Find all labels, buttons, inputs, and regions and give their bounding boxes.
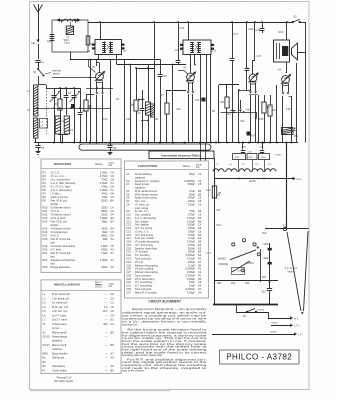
svg-text:27kΩ: 27kΩ bbox=[101, 185, 107, 189]
svg-text:V4: V4 bbox=[278, 68, 282, 72]
label S8 bbox=[218, 259, 227, 261]
svg-text:Mains aerial*: Mains aerial* bbox=[52, 330, 67, 334]
svg-text:R1: R1 bbox=[43, 171, 47, 175]
wire c30 stub bbox=[237, 304, 271, 312]
svg-text:PHILCO - A3782: PHILCO - A3782 bbox=[226, 353, 292, 362]
wire s6 line bbox=[236, 309, 268, 318]
svg-text:R25: R25 bbox=[245, 282, 250, 285]
svg-text:A1: A1 bbox=[111, 251, 115, 255]
svg-text:R23: R23 bbox=[217, 282, 222, 285]
coil L3 bbox=[62, 19, 78, 44]
svg-text:1MΩ: 1MΩ bbox=[246, 110, 251, 112]
svg-text:C34a: C34a bbox=[241, 147, 247, 149]
valve V2 bbox=[183, 66, 196, 84]
svg-text:D4: D4 bbox=[111, 213, 115, 217]
wire HT down bbox=[284, 100, 286, 125]
wire if coupling a bbox=[110, 59, 112, 143]
resistor R13 bbox=[268, 95, 276, 143]
resistor R12 bbox=[262, 95, 271, 143]
svg-text:C4: C4 bbox=[111, 206, 115, 210]
smoothing cap C31b bbox=[268, 262, 272, 265]
svg-text:10MΩ: 10MΩ bbox=[101, 209, 108, 213]
svg-text:R12: R12 bbox=[266, 106, 271, 109]
svg-text:Part V2 fil. pot.: Part V2 fil. pot. bbox=[51, 220, 68, 224]
mains lead bbox=[287, 231, 308, 315]
svg-text:CAPACITORS: CAPACITORS bbox=[138, 164, 158, 168]
rail dots bbox=[53, 141, 293, 143]
svg-text:—: — bbox=[105, 314, 108, 317]
svg-text:175pF: 175pF bbox=[188, 202, 196, 206]
svg-text:—: — bbox=[105, 331, 108, 334]
variable capacitor VC2 bbox=[70, 88, 81, 143]
label C12 bbox=[126, 118, 131, 121]
svg-text:Osc. anode feed: Osc. anode feed bbox=[51, 178, 71, 182]
svg-text:R6: R6 bbox=[43, 188, 47, 192]
wire IFT1 legs bbox=[99, 55, 117, 65]
capacitor C24 bbox=[226, 85, 235, 143]
svg-text:C40M: C40M bbox=[275, 155, 281, 157]
svg-text:Mains on/off: Mains on/off bbox=[52, 343, 66, 347]
svg-text:D6: D6 bbox=[111, 192, 115, 196]
volume control R11 bbox=[282, 128, 300, 139]
label C10 bbox=[103, 118, 108, 121]
misc footnote bbox=[54, 377, 74, 384]
svg-text:A9: A9 bbox=[111, 356, 115, 360]
wire below V1 bbox=[86, 87, 113, 89]
wire grid line bbox=[52, 60, 96, 79]
svg-text:150Ω: 150Ω bbox=[101, 206, 107, 210]
svg-text:A7: A7 bbox=[111, 351, 115, 355]
valve V1 bbox=[92, 65, 105, 83]
svg-text:R5: R5 bbox=[43, 185, 47, 189]
antenna AE bbox=[31, 4, 43, 45]
svg-text:B1,: B1, bbox=[43, 356, 47, 360]
svg-text:L.T.+: L.T.+ bbox=[294, 325, 300, 328]
svg-text:R4: R4 bbox=[43, 181, 47, 185]
svg-text:C17: C17 bbox=[234, 33, 239, 36]
coil L8 bbox=[224, 169, 237, 172]
svg-text:R7: R7 bbox=[43, 192, 47, 196]
tuning pointer arrow bbox=[230, 247, 259, 272]
svg-text:820Ω: 820Ω bbox=[101, 199, 107, 203]
svg-text:MISCELLANEOUS: MISCELLANEOUS bbox=[54, 283, 80, 287]
valve V3 bbox=[246, 67, 259, 85]
svg-text:C3: C3 bbox=[198, 172, 202, 176]
wire gang top bbox=[58, 87, 80, 89]
wire frame box stub bbox=[70, 52, 72, 60]
capacitor C1 bbox=[35, 44, 44, 64]
svg-text:A4: A4 bbox=[111, 258, 115, 262]
wire coil top bbox=[38, 85, 47, 89]
wire m2 bbox=[153, 21, 155, 142]
svg-text:D5: D5 bbox=[111, 185, 115, 189]
svg-text:R23: R23 bbox=[43, 265, 48, 269]
frame aerial box bbox=[52, 20, 88, 52]
switch box bbox=[232, 268, 245, 275]
IFT2 can bbox=[183, 40, 211, 55]
resistor R5 bbox=[131, 68, 139, 143]
label M85 bbox=[264, 243, 269, 246]
svg-text:C1: C1 bbox=[111, 301, 115, 305]
svg-text:—: — bbox=[105, 336, 108, 339]
svg-text:R17: R17 bbox=[43, 234, 48, 238]
resistor R6 psu bbox=[206, 186, 222, 198]
svg-text:R29: R29 bbox=[47, 40, 52, 44]
wire m2h bbox=[135, 67, 154, 69]
wire lamp branch bbox=[260, 249, 262, 282]
wire m4 bbox=[167, 65, 188, 91]
svg-text:Mains R.F. by-pass: Mains R.F. by-pass bbox=[135, 290, 158, 294]
wire HT+ line bbox=[215, 177, 304, 181]
svg-text:R9: R9 bbox=[43, 199, 47, 203]
svg-text:39kΩ: 39kΩ bbox=[101, 220, 107, 224]
wire IFT2 feed bbox=[187, 21, 189, 40]
svg-text:near to the chassis.: near to the chassis. bbox=[122, 369, 145, 373]
svg-text:400: 400 bbox=[103, 322, 108, 326]
svg-text:V3 C.G. ...: V3 C.G. ... bbox=[51, 209, 63, 213]
wire ps left bbox=[214, 158, 216, 304]
label scrn bbox=[249, 181, 256, 183]
svg-text:B4: B4 bbox=[111, 220, 115, 224]
svg-text:—: — bbox=[105, 365, 108, 368]
capacitor C5 bbox=[35, 143, 44, 155]
wire chassis rail bbox=[34, 142, 298, 144]
svg-text:150Ω: 150Ω bbox=[101, 265, 107, 269]
pilot lamp 1 bbox=[232, 243, 235, 246]
svg-text:S2-S5: S2-S5 bbox=[43, 335, 51, 339]
svg-text:V3: V3 bbox=[246, 67, 250, 71]
svg-text:C8: C8 bbox=[111, 174, 115, 178]
label R10 bbox=[259, 118, 264, 121]
svg-text:C6: C6 bbox=[198, 202, 202, 206]
svg-text:S6-S7: S6-S7 bbox=[43, 343, 51, 347]
switch S1 bbox=[33, 62, 45, 77]
wire v4 grid drops bbox=[201, 143, 206, 161]
svg-text:Int. aerial coil: Int. aerial coil bbox=[52, 301, 68, 305]
svg-text:V3 S.G. feed: V3 S.G. feed bbox=[51, 216, 66, 220]
svg-text:Volume control: Volume control bbox=[51, 195, 69, 199]
label 2N bbox=[246, 262, 255, 265]
svg-text:Metal rectifier: Metal rectifier bbox=[52, 351, 68, 355]
wire below IFT1 bbox=[70, 59, 160, 61]
svg-text:C5: C5 bbox=[41, 146, 45, 150]
svg-text:E5: E5 bbox=[111, 216, 115, 220]
svg-text:R4I: R4I bbox=[217, 195, 221, 197]
capacitor C30 bbox=[261, 243, 272, 304]
wire antenna to coil bbox=[38, 76, 40, 85]
capacitor C4 bbox=[78, 88, 86, 143]
svg-text:V2 filament shunt: V2 filament shunt bbox=[51, 206, 71, 210]
wire lamp line bbox=[265, 225, 309, 231]
svg-text:H.T.-: H.T.- bbox=[294, 317, 299, 320]
svg-text:R8: R8 bbox=[221, 100, 225, 104]
svg-text:Dial lamps ...: Dial lamps ... bbox=[52, 356, 67, 360]
svg-text:50pF: 50pF bbox=[189, 172, 195, 176]
svg-text:R21: R21 bbox=[217, 224, 222, 227]
svg-text:2N/5ΩΔ: 2N/5ΩΔ bbox=[246, 262, 255, 265]
svg-text:R15: R15 bbox=[43, 227, 48, 231]
label C22 bbox=[201, 98, 206, 101]
agc arrow bbox=[239, 100, 242, 112]
svg-text:L.W. osc. coil: L.W. osc. coil bbox=[52, 309, 68, 313]
svg-text:C5: C5 bbox=[198, 182, 202, 186]
output transformer T1 bbox=[274, 40, 290, 62]
svg-text:C26: C26 bbox=[249, 28, 254, 31]
coil L10 bbox=[250, 169, 276, 172]
label C25 bbox=[240, 120, 245, 123]
nameplate PHILCO A3782 bbox=[220, 350, 300, 364]
svg-text:2nd I.F. trans.: 2nd I.F. trans. bbox=[52, 318, 68, 322]
svg-text:(S8/M4Δ): (S8/M4Δ) bbox=[219, 263, 229, 266]
wire osc join bbox=[58, 134, 68, 143]
label R9 bbox=[212, 110, 216, 113]
wire d1 bbox=[218, 85, 220, 143]
coil box L8 bbox=[40, 119, 48, 129]
IFT1 can bbox=[95, 40, 122, 55]
svg-text:2.2MΩ: 2.2MΩ bbox=[100, 181, 108, 185]
svg-text:3.9MΩ: 3.9MΩ bbox=[100, 216, 108, 220]
table miscellaneous bbox=[41, 280, 121, 374]
svg-text:C24: C24 bbox=[226, 113, 231, 116]
svg-text:C8: C8 bbox=[111, 178, 115, 182]
svg-text:B4: B4 bbox=[111, 199, 115, 203]
svg-text:H.T.+: H.T.+ bbox=[297, 177, 304, 181]
svg-text:R14: R14 bbox=[43, 220, 48, 224]
svg-text:R12: R12 bbox=[43, 213, 48, 217]
wire d2 bbox=[238, 90, 240, 143]
svg-text:V4 filament shunt: V4 filament shunt bbox=[51, 227, 71, 231]
svg-text:AE: AE bbox=[31, 41, 35, 45]
svg-text:A5: A5 bbox=[111, 265, 115, 269]
table capacitors bbox=[125, 161, 209, 298]
capacitor C39 bbox=[259, 143, 264, 154]
svg-text:150Ω: 150Ω bbox=[101, 227, 107, 231]
capacitor C17 bbox=[230, 21, 239, 85]
svg-text:A9: A9 bbox=[111, 364, 115, 368]
svg-text:C6: C6 bbox=[111, 171, 115, 175]
capacitor C6 bbox=[87, 44, 95, 54]
svg-text:I.F. filter ...: I.F. filter ... bbox=[51, 192, 63, 196]
svg-text:Part V2 fil. pot.: Part V2 fil. pot. bbox=[51, 199, 68, 203]
contact a bbox=[257, 253, 260, 256]
svg-text:V4 Anode feed: V4 Anode feed bbox=[51, 230, 69, 234]
svg-text:27kΩ: 27kΩ bbox=[101, 178, 107, 182]
diode MR1 bbox=[56, 18, 63, 22]
svg-text:R13: R13 bbox=[43, 216, 48, 220]
svg-text:C9: C9 bbox=[113, 146, 117, 150]
svg-text:—: — bbox=[105, 369, 108, 372]
capacitor C28 bbox=[256, 21, 265, 33]
label R24b bbox=[263, 233, 268, 235]
wire speaker return bbox=[298, 22, 306, 143]
svg-text:L.W. aerial coil: L.W. aerial coil bbox=[52, 296, 69, 300]
svg-text:R7: R7 bbox=[161, 93, 165, 97]
svg-text:1MΩ: 1MΩ bbox=[102, 230, 108, 234]
svg-text:—: — bbox=[105, 319, 108, 322]
wire sub bus bbox=[34, 107, 110, 109]
svg-text:1.5kΩ: 1.5kΩ bbox=[101, 244, 108, 248]
svg-text:last: last bbox=[51, 241, 55, 245]
svg-text:Part fil. circuit bal-: Part fil. circuit bal- bbox=[51, 237, 72, 241]
note intermediate frequency bbox=[149, 151, 214, 159]
svg-text:S8/M5Ω: S8/M5Ω bbox=[218, 259, 227, 261]
text circuit alignment bbox=[122, 299, 208, 372]
table resistors bbox=[41, 159, 121, 273]
svg-text:S2: S2 bbox=[294, 15, 298, 19]
svg-text:SCRN: SCRN bbox=[249, 181, 256, 183]
label M82 bbox=[264, 258, 269, 260]
svg-text:1MΩ: 1MΩ bbox=[102, 195, 108, 199]
svg-text:12.0: 12.0 bbox=[102, 309, 108, 313]
label R4 bbox=[155, 118, 159, 121]
wire o1 bbox=[289, 96, 292, 143]
svg-text:D2: D2 bbox=[111, 296, 115, 300]
capacitor C26 bbox=[245, 21, 254, 90]
pilot lamp 3 bbox=[253, 243, 256, 246]
wire m6 bbox=[200, 55, 202, 143]
svg-text:—: — bbox=[105, 357, 108, 360]
svg-text:divider: divider bbox=[51, 202, 59, 206]
svg-text:820Ω: 820Ω bbox=[101, 248, 107, 252]
svg-text:C22: C22 bbox=[195, 100, 200, 102]
label C29 bbox=[286, 108, 291, 111]
svg-text:Values: Values bbox=[95, 163, 103, 166]
svg-text:39Ω: 39Ω bbox=[103, 237, 108, 241]
svg-text:—: — bbox=[105, 302, 108, 305]
svg-text:C27: C27 bbox=[257, 55, 262, 58]
wire v1 grid bbox=[86, 60, 94, 143]
svg-text:MO: MO bbox=[217, 210, 221, 212]
wire ps bottom bus bbox=[213, 304, 278, 306]
resistor R8 bbox=[221, 85, 230, 143]
chassis bar bbox=[79, 144, 211, 150]
svg-text:Output trans-: Output trans- bbox=[52, 322, 67, 326]
wire T1 feed bbox=[286, 21, 288, 40]
svg-text:R8: R8 bbox=[43, 195, 47, 199]
switch link dashed bbox=[46, 88, 48, 134]
svg-text:B9: B9 bbox=[111, 368, 115, 372]
square dot C31 bbox=[262, 277, 267, 279]
svg-text:R1: R1 bbox=[55, 102, 59, 106]
label onoff bbox=[206, 253, 212, 255]
svg-text:H.T. feed ...: H.T. feed ... bbox=[51, 248, 65, 252]
svg-text:Dial battery: Dial battery bbox=[52, 364, 66, 368]
capacitor C23 bbox=[47, 35, 54, 44]
wire if coupling c bbox=[124, 59, 126, 143]
resistor R7 bbox=[161, 90, 170, 143]
svg-text:S/V8Ω: S/V8Ω bbox=[270, 332, 277, 334]
svg-text:RESISTORS: RESISTORS bbox=[54, 162, 71, 166]
wire ps row bbox=[215, 281, 279, 285]
coil L11 bbox=[151, 104, 155, 117]
wire m1 bbox=[129, 64, 131, 143]
wire HT+ bus right bbox=[300, 22, 306, 24]
wire HT- drop bbox=[286, 143, 288, 230]
svg-text:aerial: aerial bbox=[53, 72, 60, 76]
link a bbox=[138, 99, 149, 122]
svg-text:A3: A3 bbox=[111, 248, 115, 252]
svg-text:last: last bbox=[51, 255, 55, 259]
capacitor C20 bbox=[175, 44, 184, 52]
svg-text:divider ...: divider ... bbox=[51, 223, 62, 227]
svg-text:trimming tool.: trimming tool. bbox=[122, 322, 138, 326]
svg-text:R24: R24 bbox=[263, 233, 268, 235]
svg-text:5% rubber bands: 5% rubber bands bbox=[54, 380, 74, 383]
svg-text:last: last bbox=[51, 262, 55, 266]
wire d2h bbox=[219, 85, 250, 91]
capacitor C34 bbox=[241, 143, 247, 154]
coil labels bbox=[216, 164, 272, 166]
svg-text:1.5MΩ: 1.5MΩ bbox=[100, 258, 108, 262]
svg-text:C20: C20 bbox=[175, 49, 180, 52]
svg-text:C1: C1 bbox=[41, 60, 45, 64]
diode D1 bbox=[195, 98, 206, 103]
wire lt+ out bbox=[271, 323, 300, 328]
svg-text:On/off switch: On/off switch bbox=[52, 368, 68, 372]
svg-text:S1: S1 bbox=[43, 330, 47, 334]
svg-text:C16: C16 bbox=[180, 27, 185, 30]
svg-text:(ohms): (ohms) bbox=[95, 287, 102, 289]
svg-text:S1: S1 bbox=[33, 70, 37, 74]
svg-text:R19: R19 bbox=[43, 244, 48, 248]
svg-text:200: 200 bbox=[272, 109, 277, 112]
wire V3 anode bbox=[253, 21, 262, 74]
svg-text:S7(S6): S7(S6) bbox=[257, 310, 264, 312]
svg-text:—: — bbox=[105, 293, 108, 296]
svg-text:R22: R22 bbox=[43, 258, 48, 262]
diode blob bbox=[71, 104, 75, 108]
misc header approx bbox=[95, 281, 103, 289]
svg-text:R10: R10 bbox=[259, 118, 264, 121]
oscillator coil L4 bbox=[55, 116, 64, 134]
capacitor C14 bbox=[136, 90, 144, 143]
label 1M bbox=[246, 110, 251, 112]
svg-text:G4: G4 bbox=[198, 290, 202, 294]
svg-text:C5: C5 bbox=[111, 305, 115, 309]
wire m5 bbox=[194, 55, 196, 66]
coil L9 bbox=[237, 169, 250, 172]
svg-text:C14: C14 bbox=[136, 112, 141, 115]
dropper resistor R16 bbox=[259, 154, 281, 160]
svg-text:C8: C8 bbox=[126, 202, 130, 206]
wire gang branch bbox=[46, 88, 58, 90]
svg-text:CIRCUIT ALIGNMENT: CIRCUIT ALIGNMENT bbox=[148, 299, 181, 303]
resistor R1 bbox=[55, 88, 62, 143]
svg-text:C3: C3 bbox=[126, 182, 130, 186]
svg-text:C5: C5 bbox=[111, 309, 115, 313]
svg-text:10MΩ: 10MΩ bbox=[101, 234, 108, 238]
capacitor C9 bbox=[107, 143, 116, 155]
svg-text:2.2MΩ: 2.2MΩ bbox=[100, 171, 108, 175]
svg-text:—: — bbox=[105, 352, 108, 355]
wire d4 bbox=[249, 85, 277, 143]
svg-text:C21: C21 bbox=[212, 50, 217, 53]
svg-text:D2: D2 bbox=[111, 292, 115, 296]
capacitor C3 bbox=[64, 88, 72, 115]
V3 cathode leads bbox=[249, 83, 257, 143]
svg-text:R16: R16 bbox=[279, 31, 284, 34]
svg-text:2.2MΩ: 2.2MΩ bbox=[100, 188, 108, 192]
resistor R2 bbox=[84, 95, 92, 143]
svg-text:R5: R5 bbox=[131, 103, 135, 107]
svg-text:1.4kΩ: 1.4kΩ bbox=[101, 251, 108, 255]
dropper resistor R19 bbox=[233, 154, 246, 160]
svg-text:Intermediate frequency 470kc: Intermediate frequency 470kc/s. bbox=[161, 153, 201, 157]
svg-text:V1, V2 S.G. feed: V1, V2 S.G. feed bbox=[51, 185, 71, 189]
contact b bbox=[241, 269, 244, 272]
svg-text:M8Ω: M8Ω bbox=[264, 258, 269, 260]
svg-text:A.G.C. filter, damping: A.G.C. filter, damping bbox=[51, 181, 76, 185]
